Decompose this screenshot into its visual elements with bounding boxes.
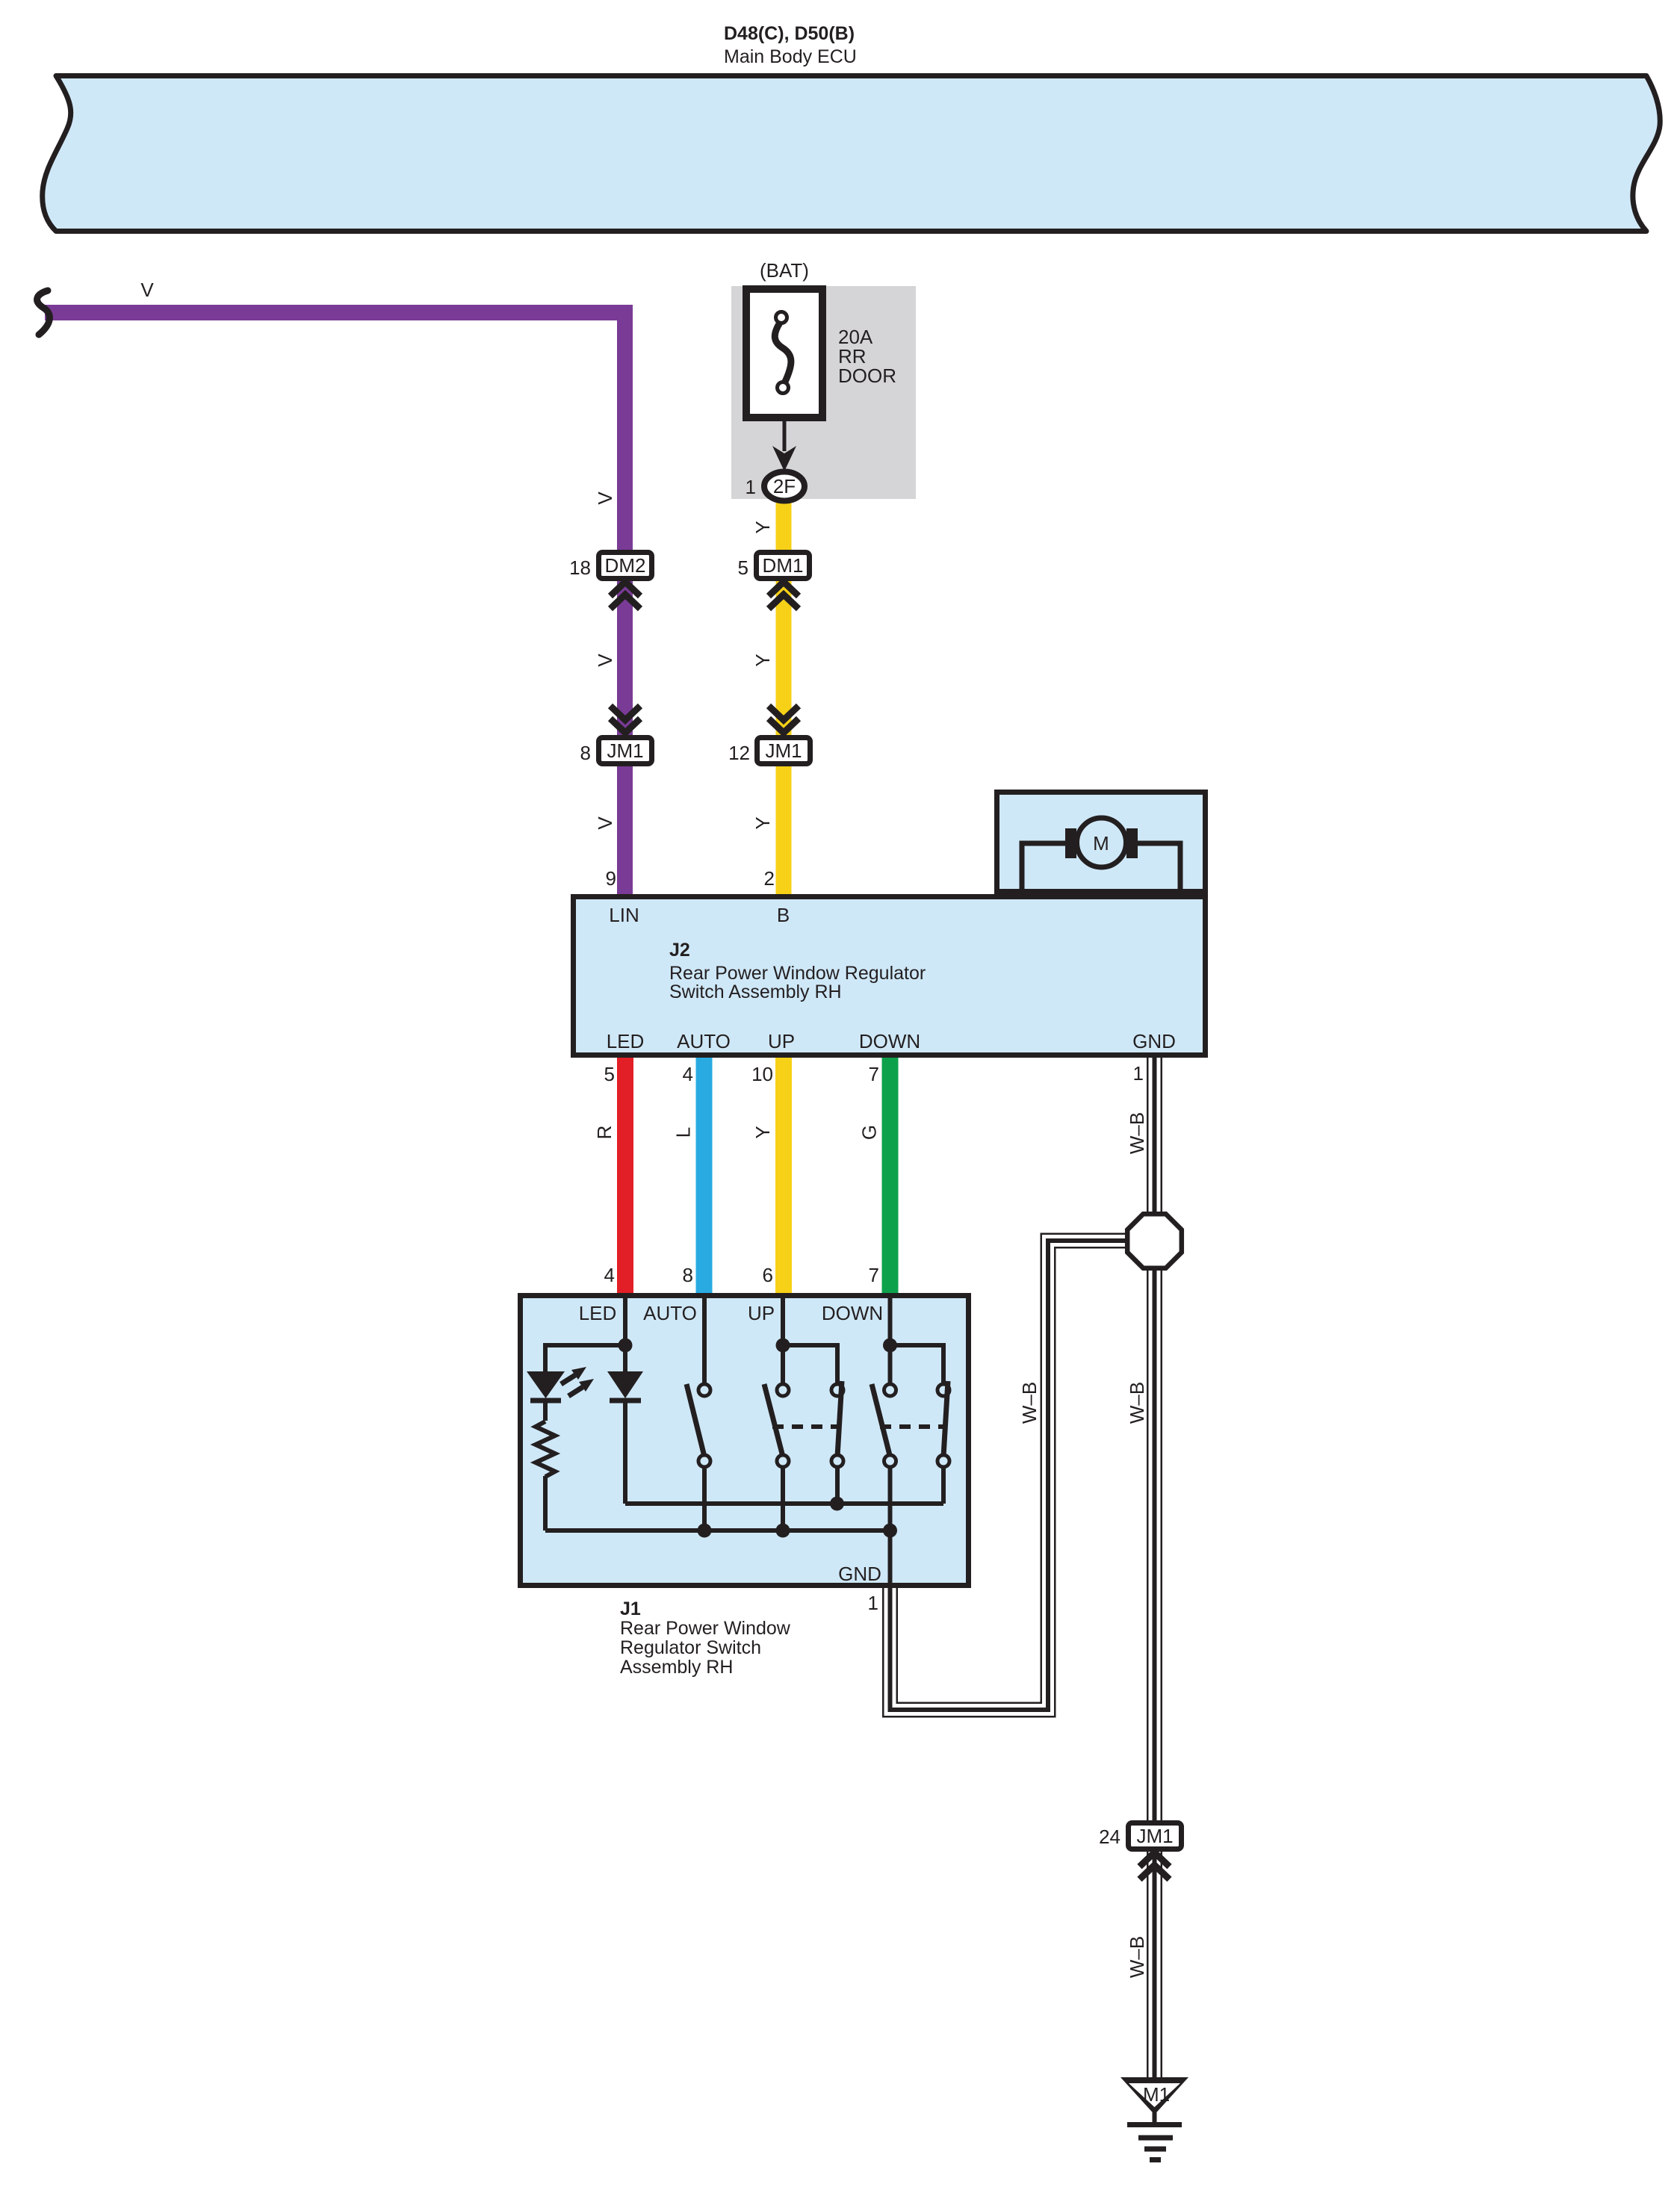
svg-text:1: 1 — [746, 476, 756, 498]
svg-text:7: 7 — [869, 1264, 879, 1286]
wire Y (yellow) J2 UP to J1 — [775, 1058, 792, 1293]
svg-text:LED: LED — [607, 1030, 645, 1052]
svg-text:M1: M1 — [1143, 2083, 1170, 2106]
connector JM1 pin 12 — [728, 706, 810, 764]
svg-text:UP: UP — [748, 1302, 775, 1324]
svg-text:W–B: W–B — [1126, 1112, 1148, 1154]
svg-text:4: 4 — [683, 1063, 693, 1085]
svg-text:Rear Power Window Regulator: Rear Power Window Regulator — [669, 963, 926, 984]
svg-text:LED: LED — [579, 1302, 617, 1324]
J1 internal: wire resistor to common — [543, 1476, 548, 1530]
svg-text:GND: GND — [1132, 1030, 1176, 1052]
svg-text:J2: J2 — [669, 940, 690, 961]
svg-text:V: V — [140, 279, 154, 301]
svg-text:5: 5 — [604, 1063, 615, 1085]
svg-text:8: 8 — [683, 1264, 693, 1286]
wire G (green) J2 DOWN to J1 — [882, 1058, 899, 1293]
wire break squiggle at left end of V wire — [37, 291, 50, 335]
svg-text:JM1: JM1 — [765, 739, 802, 762]
svg-text:LIN: LIN — [609, 904, 639, 926]
svg-text:AUTO: AUTO — [643, 1302, 697, 1324]
J1 internal: illumination LED D1 — [527, 1371, 565, 1401]
J1 internal: LED emission arrows — [561, 1367, 594, 1396]
J1 internal: diode D2 wire — [623, 1345, 627, 1371]
svg-text:Y: Y — [751, 816, 774, 829]
J1 internal: wire to illumination LED — [545, 1345, 625, 1371]
svg-text:UP: UP — [768, 1030, 795, 1052]
J1 internal: common (GND) line — [545, 1528, 890, 1533]
svg-text:L: L — [672, 1127, 695, 1138]
wire Y (yellow) from fuse 2F down to DM1 — [776, 493, 792, 894]
J1 internal: node AUTO on common line — [698, 1524, 712, 1538]
svg-text:4: 4 — [604, 1264, 615, 1286]
svg-text:AUTO: AUTO — [677, 1030, 731, 1052]
J1 internal: auto-return line — [625, 1501, 943, 1506]
svg-text:Y: Y — [751, 1126, 774, 1138]
J1 internal: wire D2 to auto-return line — [623, 1403, 627, 1504]
J1 internal: LED pin wire — [623, 1298, 627, 1345]
svg-text:W–B: W–B — [1126, 1382, 1148, 1424]
J1 internal: wire LED to resistor — [543, 1403, 548, 1421]
connector 2F oval — [764, 472, 805, 501]
svg-text:D48(C), D50(B): D48(C), D50(B) — [724, 23, 855, 44]
fuse 20A RR DOOR — [746, 289, 822, 418]
ground M1 — [1120, 2077, 1188, 2160]
ECU block D48(C), D50(B) Main Body ECU (torn band) — [43, 76, 1661, 232]
W-B wire J2 GND down to ground M1 — [1147, 1058, 1162, 2081]
J1 internal: node on auto-return line — [830, 1497, 844, 1511]
svg-text:J1: J1 — [620, 1598, 641, 1619]
svg-text:10: 10 — [751, 1063, 773, 1085]
J1 internal: AUTO switch SW1 — [686, 1298, 710, 1530]
J1 Rear Power Window Regulator Switch Assembly RH block — [521, 1296, 969, 1586]
svg-text:DOOR: DOOR — [838, 365, 896, 387]
svg-text:18: 18 — [569, 556, 591, 579]
svg-text:W–B: W–B — [1126, 1936, 1148, 1978]
J1 internal: DOWN switch SW3 — [872, 1298, 949, 1530]
svg-text:R: R — [593, 1126, 616, 1140]
svg-text:Assembly RH: Assembly RH — [620, 1657, 733, 1678]
svg-text:B: B — [777, 904, 790, 926]
W-B wire J1 GND loop to junction — [890, 1241, 1130, 1710]
connector DM2 pin 18 — [569, 553, 651, 610]
value label 20A RR DOOR — [838, 326, 896, 387]
J1 internal: node UP on common line — [776, 1524, 790, 1538]
svg-text:1: 1 — [1133, 1062, 1144, 1085]
svg-text:V: V — [594, 654, 616, 667]
svg-text:DM1: DM1 — [763, 554, 804, 577]
svg-text:Regulator Switch: Regulator Switch — [620, 1637, 761, 1658]
svg-text:Switch Assembly RH: Switch Assembly RH — [669, 981, 842, 1002]
svg-text:Rear Power Window: Rear Power Window — [620, 1618, 791, 1639]
svg-text:W–B: W–B — [1018, 1382, 1041, 1424]
svg-text:12: 12 — [728, 742, 750, 764]
svg-text:DOWN: DOWN — [859, 1030, 920, 1052]
wire R (red) J2 LED to J1 — [617, 1058, 633, 1293]
svg-text:2: 2 — [764, 867, 775, 890]
svg-text:24: 24 — [1099, 1826, 1120, 1848]
wire L (blue) J2 AUTO to J1 — [696, 1058, 713, 1293]
svg-text:Main Body ECU: Main Body ECU — [724, 46, 857, 67]
label Main Body ECU — [724, 23, 857, 67]
J2 Rear Power Window Regulator Switch Assembly RH block — [574, 897, 1206, 1055]
J1 internal: resistor R1 — [536, 1421, 555, 1477]
J1 internal: diode D2 — [607, 1371, 643, 1401]
J1 internal: UP switch SW2 — [764, 1298, 843, 1530]
motor M block on J2 — [997, 793, 1206, 895]
svg-text:9: 9 — [606, 867, 616, 890]
arrow from fuse to connector 2F — [772, 421, 796, 471]
J1 internal: GND wire to pin — [888, 1530, 893, 1585]
svg-text:Y: Y — [751, 654, 774, 666]
svg-text:V: V — [594, 816, 616, 830]
svg-text:(BAT): (BAT) — [760, 259, 809, 282]
svg-text:JM1: JM1 — [607, 739, 643, 762]
connector JM1 pin 24 — [1099, 1823, 1181, 1880]
svg-text:GND: GND — [838, 1563, 881, 1585]
svg-text:DM2: DM2 — [605, 554, 646, 577]
fuse block gray panel — [731, 286, 916, 499]
junction node (octagon) — [1127, 1214, 1182, 1268]
J1 internal: node DOWN-GND on common line — [883, 1524, 897, 1538]
J1 title text — [620, 1598, 791, 1678]
svg-text:8: 8 — [580, 742, 591, 764]
connector JM1 pin 8 — [580, 706, 652, 764]
svg-text:M: M — [1093, 832, 1109, 855]
svg-text:6: 6 — [763, 1264, 773, 1286]
svg-text:5: 5 — [738, 556, 748, 579]
svg-text:2F: 2F — [773, 475, 796, 497]
svg-text:DOWN: DOWN — [822, 1302, 883, 1324]
svg-text:7: 7 — [869, 1063, 879, 1085]
svg-text:JM1: JM1 — [1136, 1825, 1173, 1847]
svg-text:V: V — [594, 491, 616, 505]
svg-text:G: G — [858, 1125, 881, 1140]
svg-text:Y: Y — [751, 521, 774, 533]
connector DM1 pin 5 — [738, 553, 810, 610]
J1 internal: node at LED branch — [619, 1339, 633, 1353]
svg-text:1: 1 — [868, 1592, 878, 1614]
wire V (violet) from ECU band, horizontal then down to DM2 — [45, 313, 625, 895]
